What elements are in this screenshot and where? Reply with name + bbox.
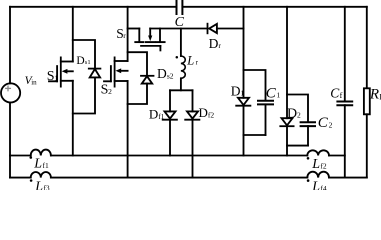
- wire Dr anode to D1 branch: [217, 28, 244, 30]
- diode Df1: [163, 111, 177, 119]
- wire Df2 bottom lead to bottom rail: [192, 120, 194, 178]
- node Lf1 polarity dot: [30, 156, 33, 159]
- node Lf3 polarity dot: [30, 179, 33, 182]
- svg-text:s2: s2: [167, 71, 174, 80]
- wire Df1 top lead: [169, 90, 171, 111]
- svg-text:D: D: [157, 66, 167, 81]
- capacitor C: [177, 1, 183, 14]
- inductor Lf2: [307, 150, 329, 155]
- svg-text:f2: f2: [208, 110, 214, 119]
- wire Df1 bottom lead: [169, 120, 171, 156]
- svg-text:D: D: [199, 105, 208, 120]
- source Vin: [1, 83, 20, 102]
- svg-text:L: L: [311, 180, 320, 190]
- wire C2 bottom lead: [307, 126, 309, 146]
- svg-text:D: D: [76, 55, 84, 67]
- wire left border top: [9, 7, 11, 84]
- wire bottom rail segment 1: [10, 177, 31, 179]
- capacitor C2: [301, 122, 315, 126]
- svg-text:r: r: [123, 31, 126, 40]
- svg-text:L: L: [311, 157, 320, 172]
- svg-text:D: D: [209, 36, 219, 51]
- svg-text:f3: f3: [43, 184, 49, 190]
- wire C2-D2 bottom link: [287, 145, 308, 147]
- capacitor Cf: [337, 102, 352, 106]
- transistor Sr: [135, 29, 164, 51]
- inductor Lf4: [307, 172, 329, 178]
- wire bottom rail segment 2: [51, 177, 307, 179]
- wire S2 drain feeder: [127, 7, 129, 61]
- svg-text:f1: f1: [43, 161, 49, 170]
- diode Dr: [208, 24, 217, 34]
- svg-text:1: 1: [240, 90, 244, 98]
- wire Lr top lead: [180, 29, 182, 57]
- node Lf2 polarity dot: [307, 157, 310, 160]
- wire C1 bottom lead: [265, 104, 267, 135]
- wire D1 bottom lead to mid rail: [243, 106, 245, 156]
- svg-text:in: in: [31, 78, 37, 86]
- wire Sr right lead to Dr: [150, 28, 207, 30]
- wire Df2 top lead: [192, 90, 194, 111]
- wire mid rail segment 1: [10, 155, 31, 157]
- capacitor C1: [258, 101, 273, 105]
- svg-text:L: L: [33, 157, 42, 172]
- svg-text:C: C: [175, 15, 185, 30]
- svg-text:1: 1: [277, 91, 281, 100]
- wire right border top: [366, 7, 368, 89]
- diode Ds1: [89, 69, 101, 78]
- svg-text:2: 2: [329, 120, 333, 129]
- diode Ds2: [141, 76, 154, 84]
- svg-text:L: L: [34, 179, 43, 190]
- wire mid rail segment 2: [51, 155, 307, 157]
- wire left border bottom: [9, 103, 11, 178]
- wire Cf top lead: [344, 7, 346, 101]
- svg-text:r: r: [196, 59, 199, 67]
- wire Ds2 top branch: [128, 52, 147, 76]
- wire Ds1 top branch: [73, 40, 95, 69]
- inductor Lf1: [31, 150, 51, 156]
- wire C2 top branch: [287, 95, 308, 122]
- svg-text:s1: s1: [85, 59, 91, 66]
- node Lr polarity dot: [176, 56, 179, 59]
- wire C1-D1 bottom link: [244, 134, 266, 136]
- wire C1 top branch: [244, 70, 266, 100]
- wire D1 branch from top rail: [243, 7, 245, 98]
- svg-text:f1: f1: [158, 112, 164, 121]
- svg-text:2: 2: [108, 87, 112, 96]
- resistor RL: [364, 88, 370, 114]
- svg-text:L: L: [186, 53, 194, 67]
- svg-text:D: D: [149, 107, 158, 122]
- svg-text:1: 1: [54, 74, 58, 83]
- wire bottom rail segment 3: [329, 177, 367, 179]
- diode D1: [236, 98, 250, 106]
- diode Df2: [185, 111, 199, 119]
- svg-text:f4: f4: [320, 184, 326, 190]
- svg-text:C: C: [266, 86, 277, 102]
- node Lf4 polarity dot: [307, 179, 310, 182]
- wire S2 source lead to bottom rail: [127, 81, 129, 178]
- wire top rail left of C: [10, 6, 177, 8]
- wire Ds1 bottom branch: [73, 77, 95, 113]
- wire Sr left lead: [128, 28, 140, 30]
- svg-text:f: f: [340, 91, 343, 100]
- svg-text:D: D: [287, 107, 297, 122]
- wire Df1-Df2 top bus: [170, 89, 193, 91]
- wire Lr bottom lead: [180, 78, 182, 90]
- wire D2 bottom lead to mid rail: [286, 126, 288, 155]
- diode D2: [280, 118, 293, 126]
- wire Cf bottom lead to bottom rail: [344, 105, 346, 177]
- wire S1 source lead: [72, 81, 74, 156]
- wire Ds2 bottom branch: [128, 84, 147, 104]
- transistor S2: [104, 57, 128, 86]
- inductor Lr: [181, 56, 185, 78]
- svg-text:D: D: [231, 83, 241, 98]
- wire S1 drain feeder: [72, 7, 74, 62]
- wire mid rail segment 3: [329, 155, 345, 157]
- transistor S1: [49, 57, 73, 86]
- svg-text:R: R: [369, 86, 379, 102]
- wire top rail right of C: [182, 6, 366, 8]
- inductor Lf3: [31, 172, 51, 178]
- svg-text:C: C: [318, 115, 329, 131]
- wire D2 branch from top rail: [286, 7, 288, 118]
- wire right border bottom: [366, 114, 368, 177]
- svg-text:2: 2: [297, 111, 301, 120]
- svg-text:f2: f2: [320, 162, 326, 171]
- svg-text:r: r: [218, 41, 221, 50]
